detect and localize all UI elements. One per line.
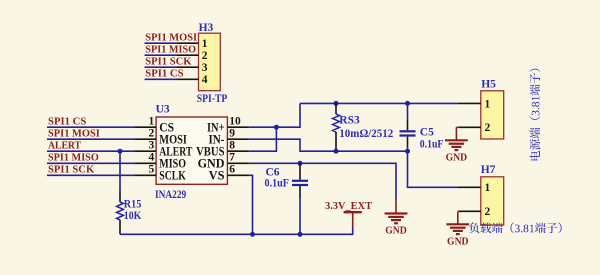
wire VBUS link to pin8 — [249, 127, 276, 151]
wire IN- from pin9 to rail — [249, 139, 407, 151]
svg-text:GND: GND — [447, 236, 469, 248]
svg-text:C5: C5 — [420, 127, 434, 139]
junction node RS3 top — [334, 101, 339, 106]
svg-text:SPI1 MOSI: SPI1 MOSI — [145, 31, 197, 43]
power port 3.3V_EXT — [344, 212, 362, 227]
svg-text:SCLK: SCLK — [159, 169, 186, 183]
svg-text:5: 5 — [149, 164, 155, 176]
connector H5 body — [481, 91, 504, 139]
svg-text:VS: VS — [209, 169, 225, 183]
wire GND net from pin7 — [249, 163, 396, 200]
svg-text:SPI1 CS: SPI1 CS — [145, 68, 183, 80]
junction node ALERT/R15 — [118, 149, 123, 154]
H3 pin 3 lead — [177, 66, 199, 68]
svg-text:H7: H7 — [481, 164, 496, 176]
svg-text:1: 1 — [202, 38, 208, 50]
H5 pin 2 lead — [459, 126, 481, 128]
wire net SPI1_MISO to H3 pin 2 — [145, 54, 178, 56]
wire IN+ from pin10 up to top rail — [249, 103, 300, 127]
wire net SPI1_CS to H3 pin 4 — [145, 78, 178, 80]
junction node C5 bottom — [405, 149, 410, 154]
svg-text:1: 1 — [485, 98, 491, 110]
ground GND (H5 pin2) — [445, 127, 468, 163]
C6 top lead — [299, 163, 301, 179]
svg-text:SPI1 CS: SPI1 CS — [48, 115, 86, 127]
svg-text:SPI1 SCK: SPI1 SCK — [145, 55, 192, 67]
U3 pin 3 lead — [135, 150, 156, 152]
R15 top lead — [119, 191, 121, 203]
U3 pin 7 lead — [227, 162, 249, 164]
svg-text:R15: R15 — [124, 199, 142, 211]
U3 pin 8 lead — [227, 150, 249, 152]
U3 pin 5 lead — [135, 174, 156, 176]
C5 bottom lead — [407, 137, 409, 148]
junction node C5 top — [405, 101, 410, 106]
junction node VS rail — [250, 232, 255, 237]
svg-text:0.1uF: 0.1uF — [420, 139, 444, 151]
capacitor C5 plates — [400, 131, 416, 135]
H3 pin 2 lead — [177, 54, 199, 56]
H3 pin 4 lead — [177, 78, 199, 80]
svg-text:3: 3 — [149, 140, 155, 152]
svg-text:GND: GND — [385, 225, 407, 237]
U3 pin 2 lead — [135, 138, 156, 140]
svg-text:2: 2 — [149, 128, 155, 140]
junction node C6 top / GND net — [298, 161, 303, 166]
wire net SPI1_SCK to U3 pin 5 — [47, 174, 135, 176]
wire H5 pin2 to ground — [456, 126, 458, 128]
svg-text:10K: 10K — [124, 210, 142, 222]
U3 pin 4 lead — [135, 162, 156, 164]
wire ALERT down to R15 — [119, 151, 121, 190]
ground GND (C5/IN- area) — [385, 201, 408, 237]
svg-text:0.1uF: 0.1uF — [265, 177, 290, 189]
svg-text:10mΩ/2512: 10mΩ/2512 — [339, 128, 393, 140]
C6 bottom lead — [299, 186, 301, 198]
wire H7 pin2 to ground — [458, 210, 459, 212]
wire net SPI1_SCK to H3 pin 3 — [145, 66, 178, 68]
wire net SPI1_MISO to U3 pin 4 — [47, 162, 135, 164]
C5 top lead — [407, 119, 409, 130]
svg-text:H5: H5 — [481, 79, 496, 91]
junction node IN+/VBUS — [274, 125, 279, 130]
svg-text:4: 4 — [202, 74, 208, 86]
wire VS pin6 down to 3.3V rail — [249, 175, 252, 234]
capacitor C6 plates — [292, 181, 308, 185]
connector H7 body — [481, 177, 504, 225]
resistor R15 zigzag — [117, 202, 124, 220]
svg-text:H3: H3 — [199, 22, 214, 34]
wire net ALERT to U3 pin 3 — [47, 150, 135, 152]
RS3 top lead — [335, 103, 337, 114]
svg-text:3.3V_EXT: 3.3V_EXT — [325, 200, 373, 212]
svg-text:6: 6 — [229, 164, 235, 176]
wire IN- rail down to H7 pin1 — [408, 151, 459, 187]
svg-text:SPI1 SCK: SPI1 SCK — [48, 164, 95, 176]
svg-text:3: 3 — [202, 62, 208, 74]
svg-text:10: 10 — [229, 116, 241, 128]
svg-text:INA229: INA229 — [155, 189, 186, 201]
resistor RS3 zigzag — [333, 114, 340, 132]
U3 pin 6 lead — [227, 174, 249, 176]
H3 pin 1 lead — [177, 42, 199, 44]
svg-text:SPI1 MISO: SPI1 MISO — [48, 152, 99, 164]
wire net SPI1_MOSI to U3 pin 2 — [47, 138, 135, 140]
wire C6 bottom to 3.3V rail — [299, 198, 301, 234]
svg-text:2: 2 — [485, 206, 491, 218]
RS3 bottom lead — [335, 132, 337, 151]
connector H3 (SPI-TP header) body — [199, 33, 221, 90]
wire 3.3V_EXT rail — [120, 228, 353, 235]
svg-text:1: 1 — [485, 182, 491, 194]
svg-text:8: 8 — [229, 140, 235, 152]
svg-text:7: 7 — [229, 152, 235, 164]
svg-text:4: 4 — [149, 152, 155, 164]
svg-text:SPI1 MOSI: SPI1 MOSI — [48, 127, 100, 139]
svg-text:1: 1 — [149, 116, 155, 128]
label 负载端（3.81端子） — [469, 222, 562, 233]
wire C5 top — [407, 103, 409, 119]
ground GND (H7 pin2) — [446, 211, 469, 247]
wire net SPI1_CS to U3 pin 1 — [47, 126, 135, 128]
svg-text:RS3: RS3 — [339, 114, 360, 126]
H5 pin 1 lead — [459, 102, 481, 104]
U3 pin 9 lead — [227, 138, 249, 140]
svg-text:SPI-TP: SPI-TP — [197, 93, 228, 105]
svg-text:2: 2 — [485, 122, 491, 134]
junction node C6 bottom — [298, 232, 303, 237]
U3 pin 10 lead — [227, 126, 249, 128]
svg-text:2: 2 — [202, 50, 208, 62]
svg-text:SPI1 MISO: SPI1 MISO — [145, 43, 196, 55]
R15 bottom lead — [119, 220, 121, 234]
svg-text:U3: U3 — [156, 104, 170, 116]
U3 pin 1 lead — [135, 126, 156, 128]
svg-text:ALERT: ALERT — [48, 139, 82, 151]
label 电源端（3.81端子） vertical — [530, 69, 541, 161]
wire top rail IN+ net to H5 pin1 — [300, 102, 459, 104]
H7 pin 1 lead — [459, 186, 481, 188]
svg-text:9: 9 — [229, 128, 235, 140]
junction node RS3 bottom — [334, 149, 339, 154]
wire net SPI1_MOSI to H3 pin 1 — [145, 42, 178, 44]
op-amp/IC U3 INA229 body — [156, 117, 227, 184]
wire C5 bottom — [407, 148, 409, 152]
H7 pin 2 lead — [459, 210, 481, 212]
svg-text:GND: GND — [446, 152, 468, 164]
